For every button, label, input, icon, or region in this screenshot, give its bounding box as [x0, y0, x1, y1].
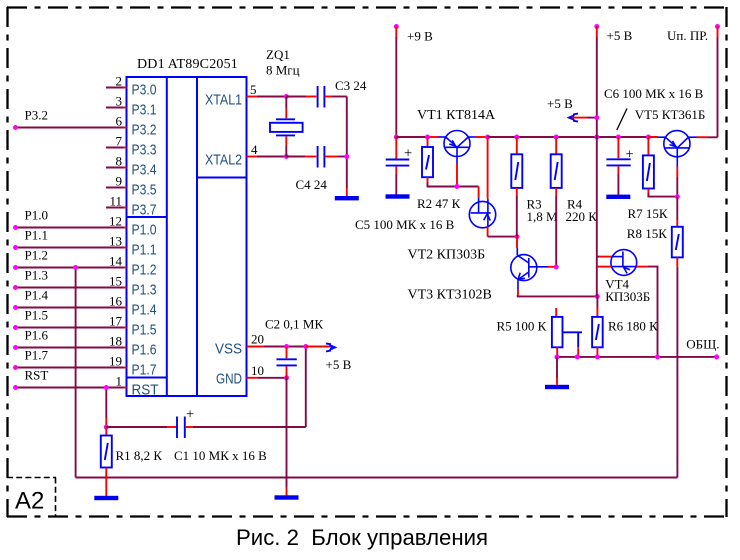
ground under ОБЩ rail — [545, 385, 569, 389]
wire main bus +9V to VT1 emitter — [396, 135, 439, 140]
wire XTAL2 pin 4 — [247, 154, 289, 159]
svg-text:3: 3 — [116, 94, 123, 109]
svg-text:P1.3: P1.3 — [132, 282, 157, 299]
svg-text:VT2 КП303Б: VT2 КП303Б — [408, 248, 486, 263]
wire bottom bus to R8 — [76, 267, 678, 478]
wire bus to R3 R4 +5V C6 R7 — [488, 135, 658, 140]
svg-text:DD1 AT89C2051: DD1 AT89C2051 — [137, 57, 238, 72]
svg-text:VT3 КТ3102В: VT3 КТ3102В — [408, 288, 492, 303]
svg-text:P3.0: P3.0 — [132, 82, 157, 99]
svg-text:P1.7: P1.7 — [25, 348, 49, 363]
node +5 В arrow right of C2 — [306, 343, 352, 372]
svg-text:8: 8 — [116, 154, 123, 169]
resistor R8 15К — [627, 197, 683, 267]
svg-text:RST: RST — [132, 382, 159, 399]
transistor VT4 КП303Б — [597, 250, 658, 357]
svg-text:1,8 М: 1,8 М — [527, 209, 559, 224]
svg-text:R6 180 К: R6 180 К — [608, 319, 658, 334]
resistor R2 47 К — [417, 137, 461, 211]
svg-text:9: 9 — [116, 174, 123, 189]
node P1.5 — [13, 308, 106, 331]
svg-text:P3.5: P3.5 — [132, 182, 157, 199]
node P1.0 — [13, 208, 106, 231]
svg-text:R5 100 К: R5 100 К — [497, 319, 547, 334]
wire VSS pin 20 — [247, 344, 309, 349]
wire VT3 collector up to node — [516, 237, 518, 248]
svg-text:P1.2: P1.2 — [25, 248, 48, 263]
transistor VT1 КТ814А — [417, 108, 496, 187]
svg-text:4: 4 — [251, 142, 258, 157]
svg-text:6: 6 — [116, 114, 123, 129]
svg-text:C2 0,1 МК: C2 0,1 МК — [265, 317, 323, 332]
node P3.2 — [13, 108, 106, 131]
capacitor C1 — [106, 407, 305, 464]
svg-text:11: 11 — [109, 194, 122, 209]
svg-text:XTAL2: XTAL2 — [205, 152, 242, 169]
svg-text:P1.6: P1.6 — [25, 328, 49, 343]
wire C1 up to VSS net — [305, 347, 307, 428]
svg-text:15: 15 — [109, 274, 122, 289]
capacitor C4 24 — [286, 146, 347, 192]
IC pin numbers left — [109, 74, 123, 389]
svg-text:5: 5 — [250, 82, 257, 97]
svg-text:КП303Б: КП303Б — [605, 289, 650, 304]
svg-text:Рис. 2 Блок управления: Рис. 2 Блок управления — [236, 525, 488, 550]
svg-text:220 К: 220 К — [566, 209, 598, 224]
svg-text:R8 15К: R8 15К — [627, 226, 667, 241]
node P1.3 — [13, 268, 106, 291]
capacitor C3 24 — [286, 78, 367, 108]
ground under R1 — [94, 496, 118, 500]
frame zone A2 — [7, 478, 56, 517]
svg-text:P3.1: P3.1 — [132, 102, 157, 119]
svg-text:P3.4: P3.4 — [132, 162, 157, 179]
wire VT2 drain to bus — [487, 137, 489, 199]
capacitor C5 100 МК x 16 В — [355, 135, 455, 233]
IC pin numbers right — [250, 82, 264, 378]
transistor VT5 КТ361Б — [635, 107, 718, 199]
wire C3/C4 down to ground — [344, 97, 349, 197]
capacitor C2 0,1 МК — [265, 317, 323, 378]
svg-text:+9 В: +9 В — [407, 29, 433, 44]
svg-text:P1.6: P1.6 — [132, 342, 157, 359]
svg-text:VT5 КТ361Б: VT5 КТ361Б — [635, 107, 706, 122]
svg-text:20: 20 — [251, 332, 264, 347]
wire VT3 emitter to +5V column — [518, 280, 600, 299]
node P1.4 — [13, 288, 106, 311]
svg-text:C4 24: C4 24 — [296, 177, 328, 192]
svg-text:+5 В: +5 В — [607, 28, 633, 43]
IC pin names left column — [132, 82, 159, 399]
svg-text:P3.2: P3.2 — [25, 108, 48, 123]
resistor R5 100 К — [497, 308, 583, 357]
svg-text:P1.5: P1.5 — [132, 322, 157, 339]
svg-text:P1.0: P1.0 — [25, 208, 48, 223]
IC DD1 AT89C2051 — [127, 57, 247, 396]
svg-text:P1.5: P1.5 — [25, 308, 48, 323]
wire rail down to ground — [556, 357, 558, 385]
wire VT3 base to R4/R5 column — [548, 264, 559, 269]
svg-text:С5 100 МК х 16 В: С5 100 МК х 16 В — [355, 217, 455, 232]
svg-text:P1.0: P1.0 — [132, 222, 157, 239]
svg-text:16: 16 — [109, 294, 123, 309]
resistor R7 15К — [628, 137, 678, 221]
wire P1.2 branch down to bottom bus — [73, 265, 78, 478]
svg-text:P1.2: P1.2 — [132, 262, 157, 279]
svg-text:R2 47 К: R2 47 К — [417, 196, 461, 211]
ground under C5 — [386, 194, 410, 198]
transistor VT3 КТ3102В — [408, 255, 548, 303]
svg-text:1: 1 — [116, 374, 123, 389]
ground under C6 — [606, 195, 630, 199]
node +9 В — [394, 24, 433, 137]
svg-text:+: + — [186, 407, 194, 423]
wire +5V column below bus — [596, 137, 598, 296]
wire RST to R1/C1 — [104, 385, 109, 430]
svg-text:ZQ1: ZQ1 — [266, 47, 290, 62]
svg-text:+: + — [626, 147, 634, 163]
resistor R4 220 К — [551, 137, 598, 267]
node P1.2 — [13, 248, 106, 271]
svg-text:P1.1: P1.1 — [25, 228, 48, 243]
resistor R3 1,8 М — [511, 137, 558, 237]
capacitor C6 100 МК x 16 В — [604, 86, 704, 195]
svg-text:19: 19 — [109, 354, 122, 369]
resistor R1 — [101, 427, 163, 496]
svg-text:GND: GND — [216, 371, 242, 388]
svg-text:8 Мгц: 8 Мгц — [266, 63, 300, 78]
svg-text:P1.7: P1.7 — [132, 362, 157, 379]
IC left pin stubs — [106, 88, 127, 388]
wire ОБЩ rail — [555, 337, 720, 360]
svg-text:+5 В: +5 В — [547, 96, 573, 111]
svg-text:C6 100 МК x 16 В: C6 100 МК x 16 В — [604, 86, 704, 101]
svg-text:P1.3: P1.3 — [25, 268, 48, 283]
ground under C4 column — [335, 196, 359, 200]
node +5 В top — [594, 24, 632, 137]
svg-text:Uп. ПР.: Uп. ПР. — [667, 28, 708, 43]
svg-text:P1.4: P1.4 — [132, 302, 157, 319]
svg-text:P1.4: P1.4 — [25, 288, 49, 303]
crystal ZQ1 8 МГц — [266, 47, 303, 157]
svg-text:RST: RST — [25, 368, 49, 383]
node P1.6 — [13, 328, 106, 351]
wire VT2 source to R3/VT3 node — [488, 226, 520, 239]
svg-text:+: + — [404, 146, 412, 162]
svg-text:А2: А2 — [15, 488, 44, 515]
node +5 В arrow at +5V rail — [547, 96, 599, 122]
svg-text:VT1 КТ814А: VT1 КТ814А — [417, 108, 496, 123]
node RST — [13, 368, 106, 391]
IC pin names right column — [205, 92, 242, 388]
wire GND pin 10 — [247, 375, 290, 380]
svg-text:17: 17 — [109, 314, 123, 329]
svg-text:7: 7 — [116, 134, 123, 149]
svg-text:ОБЩ.: ОБЩ. — [686, 337, 719, 352]
resistor R6 180 К — [592, 296, 658, 357]
node P1.7 — [13, 348, 106, 371]
svg-text:P3.7: P3.7 — [132, 202, 157, 219]
svg-text:10: 10 — [251, 363, 264, 378]
svg-text:P1.1: P1.1 — [132, 242, 157, 259]
wire XTAL1 pin 5 — [247, 94, 289, 99]
svg-text:P3.2: P3.2 — [132, 122, 157, 139]
svg-text:+5 В: +5 В — [326, 357, 352, 372]
node P1.1 — [13, 228, 106, 251]
transistor VT2 КП303Б — [408, 198, 496, 263]
svg-text:14: 14 — [109, 254, 123, 269]
wire bus VT1 collector to VT2 drain node — [475, 135, 490, 140]
svg-text:12: 12 — [109, 214, 122, 229]
svg-text:2: 2 — [116, 74, 123, 89]
svg-text:R7 15К: R7 15К — [628, 206, 668, 221]
svg-text:C3 24: C3 24 — [335, 78, 367, 93]
node Uп. ПР. — [667, 24, 720, 137]
svg-text:R1 8,2 К: R1 8,2 К — [116, 448, 163, 463]
ground under C2 column — [275, 495, 299, 499]
svg-text:C1 10 МК x 16 В: C1 10 МК x 16 В — [174, 448, 267, 463]
wire GND column down to ground — [286, 378, 288, 496]
wire R2/VT1 base/VT2 gate node — [428, 183, 479, 199]
svg-text:18: 18 — [109, 334, 122, 349]
svg-text:VSS: VSS — [215, 341, 242, 358]
svg-text:13: 13 — [109, 234, 122, 249]
svg-text:P3.3: P3.3 — [132, 142, 157, 159]
svg-text:XTAL1: XTAL1 — [205, 92, 242, 109]
